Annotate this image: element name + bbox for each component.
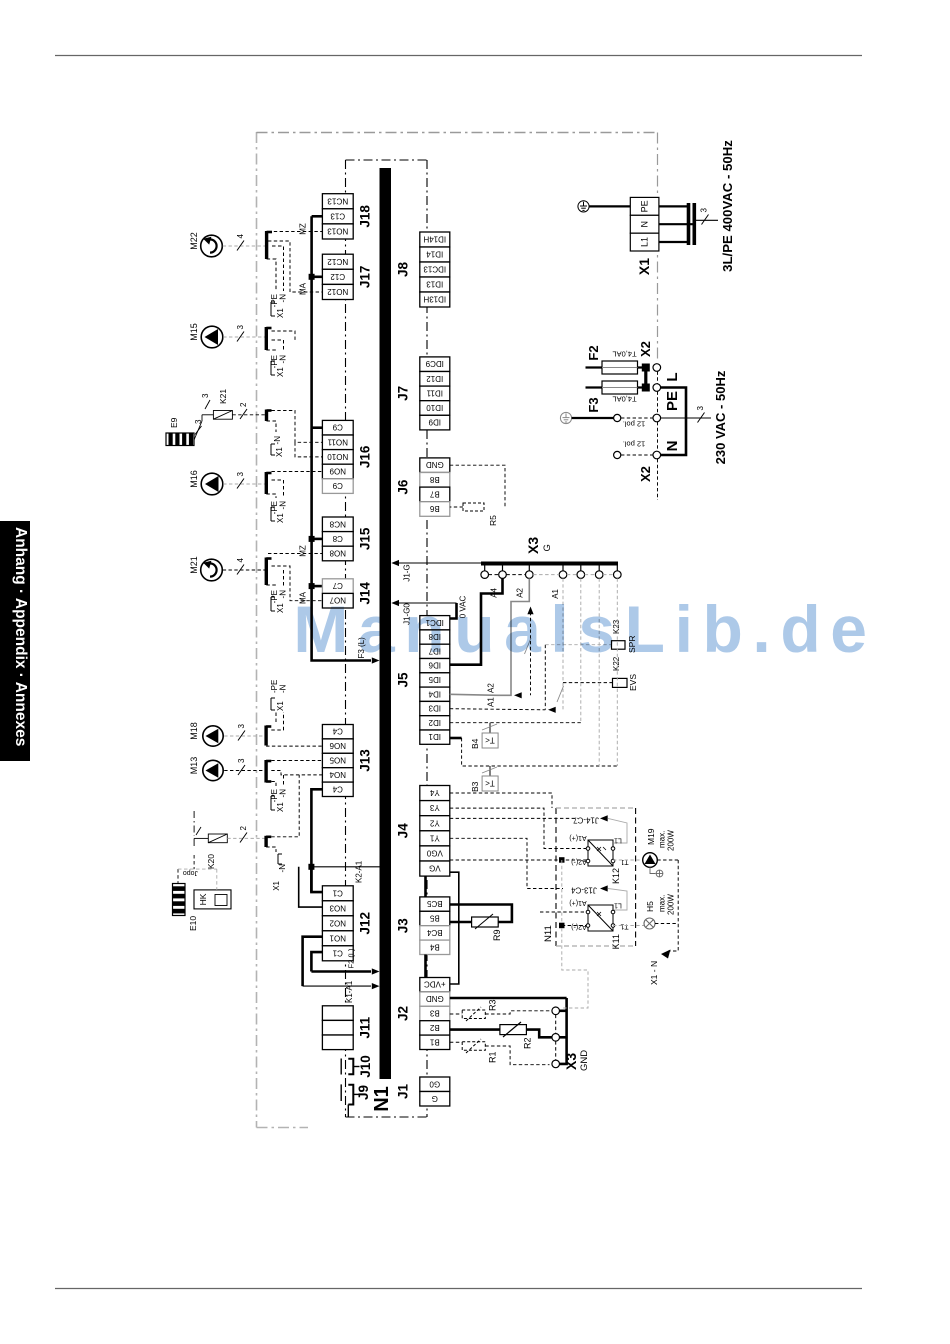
resistor R9 [472,914,499,929]
svg-text:X2: X2 [638,466,653,482]
pump M19 [613,853,657,868]
svg-text:F2: F2 [586,345,601,360]
X3 c7 drop [616,578,618,766]
wire PE row out [661,417,711,419]
wire NO1 to K1-A1 [303,937,323,986]
svg-text:C1: C1 [332,948,343,957]
slash 3 [238,731,245,741]
svg-text:ID14H: ID14H [423,235,446,244]
svg-text:max.: max. [658,895,667,912]
row K2-A1 [311,866,379,868]
terminal bar X1 (M15) [265,327,268,350]
connector J8 [420,232,450,307]
arrow A2 [514,692,522,698]
svg-text:F3: F3 [586,397,601,412]
svg-text:4: 4 [236,234,245,239]
X1 PE N stubs (M22) [267,246,284,291]
svg-text:NO1: NO1 [329,933,346,942]
svg-text:C4: C4 [332,784,343,793]
pump M13 [203,760,223,780]
svg-text:J15: J15 [358,527,373,550]
wire R1 to circle3 [485,1046,549,1065]
arrow X1-N [661,950,671,959]
svg-text:-N: -N [279,684,288,693]
wire X3-A4 to ID6 [450,578,503,664]
junction C12 [309,274,315,280]
wire M22 to X1 [223,245,265,247]
svg-text:-N: -N [279,590,288,599]
connector J4 [420,786,450,877]
N1 board dash-dot border bottom [346,1116,428,1118]
stub to C8 [312,538,323,541]
svg-text:J9: J9 [356,1085,371,1100]
slash 3 wires mark [702,215,709,225]
svg-text:J12: J12 [358,912,373,935]
slash 3 [237,332,244,342]
wire K20 to NO4 channel [271,775,299,837]
svg-text:NO13: NO13 [327,226,348,235]
svg-text:BC5: BC5 [426,899,442,908]
relay K12 [586,840,615,866]
X3 terminal circle 1 [481,571,489,579]
terminal circle X2 L-top [653,364,661,372]
X3 G bus bar [481,562,618,566]
X3 GND circle 1 [552,1007,560,1015]
svg-text:3: 3 [236,325,245,330]
N11 box border [556,808,636,946]
relay coil K22 EVS [613,678,628,687]
branch to NO10 [295,442,322,457]
230VAC bracket [661,388,686,456]
wire ID1 stub [450,737,462,740]
connector J3 [420,897,450,955]
wire M18 to NO6 [266,745,322,747]
junction A2 [559,857,565,863]
svg-text:J4: J4 [396,823,411,839]
X3-A1 drop to EVS row [562,578,564,709]
svg-text:ID11: ID11 [426,388,443,397]
X1 PE N stubs (M13) [271,775,283,786]
svg-text:R3: R3 [488,999,498,1011]
svg-text:NO6: NO6 [329,741,346,750]
stub to C12 [312,275,323,278]
svg-text:J16: J16 [358,445,373,468]
X3 c5 drop [580,578,582,722]
bridge VG to BC5 [424,876,427,897]
slash 3 (E9) [195,426,202,435]
row K1-A1 with arrow [303,985,371,987]
svg-text:X1: X1 [276,701,285,711]
svg-text:HK: HK [198,893,208,905]
slash 4 [237,565,244,575]
svg-text:-N: -N [278,864,287,873]
X3 terminal circle 4 [559,571,567,579]
wire Y3 to K12-A1 [450,808,586,848]
svg-text:M18: M18 [189,722,199,740]
svg-text:ID14: ID14 [426,250,443,259]
svg-text:Y1: Y1 [429,833,439,842]
wire X3-A2 down [497,578,529,695]
wire ID2 row to B4 circuit [450,722,581,724]
unit boundary dash-dot bottom stub [257,1127,309,1129]
svg-text:J14-C7: J14-C7 [573,816,599,825]
svg-text:2: 2 [239,402,248,407]
X1 -N stub (K21) [267,421,277,432]
svg-text:J8: J8 [396,262,411,278]
X1 PE N stubs above (M18) [271,712,283,730]
X2 boundary dashes [657,372,659,501]
svg-text:230 VAC - 50Hz: 230 VAC - 50Hz [713,370,728,464]
connector J7 [420,357,450,430]
svg-text:3L/PE 400VAC - 50Hz: 3L/PE 400VAC - 50Hz [720,140,735,272]
svg-text:3: 3 [237,724,246,729]
N1 board dash-dot border left [345,160,347,1117]
slash 3 mark PE [698,413,705,423]
terminal bar X1 (K21) [265,410,268,422]
wire M13 to X1 [224,770,265,772]
connector J9 pins [341,1084,359,1117]
wire ground to X1 PE [589,205,630,207]
svg-text:K2-A1: K2-A1 [355,860,364,883]
wire K20 to X1 [227,837,265,839]
svg-text:VG: VG [429,864,441,873]
svg-text:L1: L1 [614,902,622,909]
svg-text:GND: GND [426,460,444,469]
connector J2 [420,978,450,1050]
svg-text:X1: X1 [276,367,285,377]
svg-text:L1: L1 [640,237,650,247]
page top rule [55,55,862,57]
X3 terminal circle 7 [614,571,622,579]
wire X1 PE right [659,205,688,207]
svg-text:G: G [542,544,553,551]
terminal circle N-left [614,451,621,458]
wire NO3 to K2-A1 [299,867,323,907]
unit boundary dash-dot left [256,132,258,1128]
connector J11 [322,1006,353,1050]
svg-text:B4: B4 [429,942,439,951]
svg-text:A2(-): A2(-) [571,858,587,865]
resistor R1 dashed [462,1039,485,1053]
page bottom rule [55,1288,862,1290]
wire Y2 to J14-C7 [450,817,578,819]
wire MA to NO12 [268,241,322,292]
connector J17 [322,254,353,299]
sensor B4 stub [489,723,491,733]
svg-text:3: 3 [696,406,705,411]
svg-text:C7: C7 [332,581,343,590]
slash 3 [237,479,244,489]
wire M15 to X1 [223,336,265,338]
X3 GND circle 2 [552,1034,560,1042]
svg-text:-N: -N [273,436,282,445]
svg-text:NO10: NO10 [327,452,348,461]
row F2 (L) with arrow [311,970,371,973]
terminal circle N-right [653,451,661,459]
wire M18 to X1 [224,735,265,737]
svg-text:+VDC: +VDC [424,980,446,989]
svg-text:C1: C1 [332,888,343,897]
svg-text:GND: GND [426,994,444,1003]
terminal bar X1 (K20) [264,836,267,847]
svg-text:X1: X1 [276,513,285,523]
svg-text:ID1: ID1 [428,732,441,741]
svg-text:B6: B6 [429,504,439,513]
X3 terminal circle 6 [595,571,603,579]
connector J16 [322,420,353,493]
row F3 (L) with arrow [312,655,371,661]
svg-text:12 pol.: 12 pol. [623,440,646,449]
svg-text:NO8: NO8 [329,549,346,558]
svg-text:N: N [664,441,681,452]
svg-text:max.: max. [658,831,667,848]
svg-text:12 pol.: 12 pol. [623,420,646,429]
svg-text:T1: T1 [620,858,628,865]
X1 PE N stubs (M15) [266,340,283,352]
sensor R5 wiring [450,465,505,507]
wire ID1 to B3 row [462,738,618,766]
dashed riser to SPR row [544,645,546,710]
SPR row [545,644,611,646]
sensor B3 stub [489,766,491,776]
SECTION: powerin [560,140,735,500]
ground PE symbol at X1 [578,201,589,212]
svg-text:B3: B3 [470,781,480,792]
terminal bar X1 (M16) [265,472,268,494]
bracket X1 (M16) [271,507,275,521]
svg-text:J10: J10 [358,1055,373,1078]
wire B2 to R2 [450,1028,500,1031]
lamp H5 [613,918,655,929]
bracket X1 (M15) [271,361,275,375]
row J1-G0 with arrow [399,602,457,604]
svg-text:ID3: ID3 [428,704,441,713]
svg-text:X1 - N: X1 - N [649,961,659,985]
svg-text:M21: M21 [189,556,199,574]
terminal circle PE-right [653,414,661,422]
svg-text:B8: B8 [429,475,439,484]
contact mark B3 [482,767,497,773]
wire K21 to NO11/NO10 [272,411,323,443]
mixer M22 [201,235,223,257]
svg-text:3: 3 [700,208,709,213]
svg-text:ID4: ID4 [428,689,441,698]
terminal bar X1 (M22) [265,231,268,259]
wire B3 to R3 [450,1013,462,1015]
svg-text:T4,0AL: T4,0AL [612,395,636,404]
link J13-C4 to K11 L1 [608,889,627,911]
svg-text:C12: C12 [330,272,345,281]
bracket X1 (M21) [271,597,275,611]
svg-text:X3: X3 [525,537,541,554]
svg-text:ManualsLib.de: ManualsLib.de [293,592,876,666]
cable bar 1 [687,203,691,245]
connector J10 pins [341,1059,359,1075]
wire M13 to NO4 [271,771,322,775]
svg-text:K20: K20 [206,854,216,869]
svg-text:PE: PE [640,200,650,212]
wire A1 row from ID3 [450,709,546,710]
X3 c6 drop [598,578,600,766]
svg-text:Y4: Y4 [429,788,439,797]
arrow J13-C4 [600,885,608,891]
wire X1 L1 right [659,241,688,243]
svg-text:NO12: NO12 [327,287,348,296]
wire B1 to R1 [450,1041,462,1043]
stub to C9 [312,426,323,429]
fuse F2 [586,361,644,374]
svg-text:J2: J2 [396,1006,411,1021]
svg-text:200W: 200W [667,894,676,915]
HK/E10 control links [178,855,217,890]
svg-text:A2: A2 [487,683,496,693]
X1 -N stub (K20) [266,847,276,852]
slash 2 [240,833,247,843]
svg-text:J6: J6 [396,479,411,495]
svg-text:M16: M16 [189,470,199,488]
svg-text:B4: B4 [470,738,480,749]
wire GND to X3 bracket [450,997,567,1000]
svg-text:NO11: NO11 [327,437,348,446]
X3 terminal circle 5 [577,571,585,579]
stub to C13 [312,215,323,218]
svg-text:M15: M15 [189,323,199,341]
pump M16 [201,473,223,495]
svg-text:K1-A1: K1-A1 [345,980,354,1003]
X3 GND bracket [560,998,567,1064]
svg-text:M13: M13 [189,757,199,775]
unit boundary dash-dot top [257,132,658,134]
svg-text:E9: E9 [169,417,179,428]
svg-text:X1: X1 [275,447,284,457]
X3 GND circle 3 [552,1060,560,1068]
svg-text:J17: J17 [358,266,373,289]
svg-text:J11: J11 [358,1016,373,1038]
svg-text:VG0: VG0 [426,848,443,857]
svg-text:4: 4 [236,558,245,563]
gray link N11 to GND circle1 [562,928,588,1008]
wire A2 into ID4 [450,694,497,695]
svg-text:M22: M22 [189,232,199,250]
connector J18 [322,194,353,239]
link J14-C7 to K12 L1 [608,818,627,843]
pump M18 [203,726,223,746]
svg-text:NC12: NC12 [327,257,348,266]
svg-text:C4: C4 [332,727,343,736]
SECTION: x3gnd [347,872,591,1071]
wire MA to NO7 [272,566,323,601]
svg-text:C8: C8 [332,534,343,543]
svg-text:X2: X2 [638,341,653,357]
wire VG to A2 row [450,859,586,861]
svg-text:J13: J13 [358,749,373,772]
svg-text:J7: J7 [396,386,411,401]
svg-text:B5: B5 [429,914,439,923]
cable bar 2 [692,203,696,245]
wire M15 feed down-channel [272,331,296,342]
terminal circle PE-left [614,414,621,421]
pump M15 [201,326,223,348]
wire N row dashed [621,454,653,456]
svg-text:B7: B7 [429,489,439,498]
wire C4b common down to C1a [311,789,322,892]
branch to K11 A2 [561,860,563,926]
wire Y4 step [450,793,552,808]
bracket X1 (K21) [271,444,275,455]
resistor R5 dashed [463,503,484,511]
wire PE row dashed [621,417,653,419]
svg-text:M19: M19 [646,828,656,845]
connector J1 [420,1077,450,1106]
bracket X1 above (M18) [271,698,275,710]
bracket X1 (M22) [271,302,275,316]
svg-text:F2 (L): F2 (L) [347,948,356,969]
svg-text:X1: X1 [272,880,281,890]
svg-text:N11: N11 [543,925,554,942]
return wire to X1-N [655,860,678,951]
contact K20 [194,827,227,846]
resistor R2 [500,1022,527,1037]
svg-text:L: L [664,372,681,381]
ground PE symbol at X2 [560,412,571,423]
wire to K11 A1 [540,911,586,913]
wire K21 to X1 [232,414,265,416]
wire X1 N right [659,223,694,225]
svg-text:T4,0AL: T4,0AL [612,350,636,359]
heater E10 [173,884,186,916]
bracket X1 (M13) [271,796,275,810]
contact mark B4 [482,724,497,730]
svg-text:A1(+): A1(+) [569,899,586,906]
SECTION: x3bus [450,465,638,792]
svg-text:-N: -N [279,789,288,798]
svg-text:R5: R5 [488,515,498,526]
contact mark on A1 drop [557,686,564,702]
svg-text:G0: G0 [429,1079,440,1088]
wire Y1 to K11-A1 [450,838,563,888]
dashed K21-A2 branch with up arrow [530,612,532,695]
svg-text:-N: -N [279,501,288,510]
svg-text:MA: MA [299,282,308,295]
svg-text:X3: X3 [563,1053,579,1070]
junction square F3 [642,384,649,391]
row J1-G with arrow [399,562,481,564]
slash 4 [237,241,244,251]
svg-text:-N: -N [279,355,288,364]
K20 linkage dash-dot [193,811,195,836]
svg-text:N1: N1 [371,1086,393,1112]
svg-text:R9: R9 [492,929,502,941]
svg-text:PE: PE [664,391,681,411]
svg-text:Y3: Y3 [429,803,439,812]
stub circle2 [559,1036,566,1039]
SECTION: n11 [450,793,678,985]
E9 link diagonal [194,421,202,440]
svg-text:E10: E10 [188,916,198,931]
SECTION: boundaries [257,132,658,1128]
svg-text:T˂: T˂ [485,736,495,745]
wire M16 to NO9 [272,471,323,473]
sensor B4 box [482,733,498,748]
svg-text:T˂: T˂ [485,779,495,788]
terminal X1 block [630,197,659,251]
supply line 3L [696,219,718,221]
connector J6 [420,458,450,516]
svg-text:R1: R1 [488,1051,498,1063]
junction square F2 [642,364,649,371]
svg-text:N: N [640,221,650,228]
svg-text:B3: B3 [429,1009,439,1018]
